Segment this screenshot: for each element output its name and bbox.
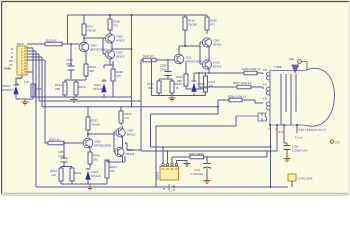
svg-text:BF423: BF423 <box>126 152 135 156</box>
svg-text:KG: KG <box>263 83 267 87</box>
svg-text:BF63DC5500: BF63DC5500 <box>94 144 112 148</box>
resistor R237 load <box>82 15 96 42</box>
tube electrode g1 <box>280 74 282 125</box>
transistor V302 <box>105 34 124 43</box>
wire base rail V309/V310 <box>200 42 203 64</box>
node V306 collector <box>87 133 89 135</box>
wire zener-R251 bottom link <box>16 98 33 100</box>
wire top supply bus <box>68 14 208 16</box>
diode D305 <box>192 73 210 96</box>
wire input drop (x42) <box>41 57 43 107</box>
wire emitter network rail <box>65 80 86 82</box>
resistor R257 <box>189 152 204 159</box>
wire bottom bus <box>36 186 288 188</box>
wire stage2 input riser (x141) <box>140 60 142 151</box>
svg-text:TUBE: TUBE <box>274 65 282 69</box>
svg-text:10K: 10K <box>24 80 29 84</box>
wire heater line y147 <box>151 146 271 148</box>
wire input drop to bottom bus (x36) <box>35 51 37 187</box>
wire V309-V310 column <box>208 38 210 73</box>
svg-text:XS301: XS301 <box>156 171 160 180</box>
resistor R253 <box>50 168 63 184</box>
node tube focus pin <box>296 124 298 126</box>
connector CON2 <box>288 174 313 187</box>
transistor V310 <box>202 60 221 69</box>
ground under C320 <box>284 156 291 162</box>
svg-text:CON2 5256: CON2 5256 <box>298 177 313 181</box>
resistor R266 <box>239 67 263 75</box>
svg-text:R268 1/2W 1K: R268 1/2W 1K <box>228 95 247 99</box>
wire stage2 ground rail <box>152 60 206 96</box>
capacitor C306 input <box>66 44 75 79</box>
svg-text:75C: 75C <box>335 141 340 145</box>
node heater pin at y147 <box>270 146 272 148</box>
transistor V308 <box>115 147 135 156</box>
svg-text:390: 390 <box>93 158 98 162</box>
cathode coil red <box>266 72 270 80</box>
wire pin4 to gnd <box>177 161 188 164</box>
svg-text:Focus: Focus <box>295 136 303 140</box>
wire V304 collector to base rail <box>84 38 103 42</box>
svg-text:470: 470 <box>210 23 215 27</box>
resistor R252 <box>70 168 82 184</box>
node stage2 input divider tap <box>151 59 153 61</box>
svg-text:BF422: BF422 <box>116 39 125 43</box>
svg-text:470: 470 <box>125 116 130 120</box>
node XS301 pin1 tap <box>162 146 164 148</box>
transistor V303 <box>105 50 124 59</box>
resistor R249 emitter <box>88 148 100 168</box>
node heater pin at bottom bus <box>270 186 272 188</box>
transistor V307 <box>116 128 136 137</box>
node tube pin heater A <box>269 124 271 126</box>
svg-text:470: 470 <box>110 169 115 173</box>
wire pin3 to R257 line <box>172 151 267 163</box>
connector XS301 <box>156 163 179 180</box>
svg-text:7W10K: 7W10K <box>91 123 100 127</box>
node bus junction 1 <box>109 14 111 16</box>
ground stage2 <box>169 96 176 102</box>
svg-text:Gnd: Gnd <box>278 130 284 134</box>
diode D306 <box>86 168 101 184</box>
svg-text:KB: KB <box>263 97 267 101</box>
transistor V311 driver <box>174 54 202 64</box>
wire stage1 output to riser <box>112 48 132 50</box>
svg-text:4.7uF/250: 4.7uF/250 <box>190 172 203 176</box>
resistor R334 <box>147 81 161 96</box>
svg-text:R266 1/2W 1K: R266 1/2W 1K <box>242 67 261 71</box>
svg-text:15614K: 15614K <box>91 174 101 178</box>
resistor R341 <box>204 73 216 96</box>
svg-text:270p: 270p <box>160 68 167 72</box>
ground input area <box>22 99 29 105</box>
svg-text:R237 47: R237 47 <box>143 54 154 58</box>
svg-text:R239 47: R239 47 <box>46 39 57 43</box>
wire input drop B (x33) <box>32 48 34 97</box>
wire stage3 ground rail <box>61 183 107 185</box>
connector XS20 <box>15 42 27 81</box>
wire stage3 out link y150 <box>125 143 141 150</box>
transistor V309 <box>202 38 221 47</box>
wire bus drop to stage3 riser <box>131 15 133 107</box>
svg-text:BF423: BF423 <box>213 65 222 69</box>
node stage1 output tap <box>131 48 133 50</box>
resistor R267 <box>199 81 263 89</box>
wire V303 emitter to clamp rail <box>104 61 113 69</box>
capacitor C307 input <box>58 143 68 167</box>
resistor R233 load <box>86 107 100 137</box>
svg-text:R267 1/2W 1K: R267 1/2W 1K <box>233 81 252 85</box>
svg-text:BZX9C5.1: BZX9C5.1 <box>1 88 15 92</box>
capacitor C311 <box>190 157 211 178</box>
svg-text:390: 390 <box>89 69 94 73</box>
node V304 collector <box>83 37 85 39</box>
svg-text:R257 1R50: R257 1R50 <box>189 152 204 156</box>
svg-text:10E: 10E <box>289 57 294 61</box>
wire cathode staircase S1 (y113) <box>151 100 219 147</box>
resistor R235 cascode bias <box>119 107 132 126</box>
resistor R240 emitter <box>84 52 96 80</box>
svg-text:BF422: BF422 <box>127 133 136 137</box>
svg-text:BF423: BF423 <box>116 55 125 59</box>
svg-text:GND: GND <box>4 67 12 71</box>
ground stage3 <box>87 184 94 190</box>
wire emitter network rail 3 <box>61 167 72 169</box>
svg-text:7W10K: 7W10K <box>188 23 197 27</box>
ground near XS301 <box>184 162 191 167</box>
flag 75C <box>330 140 340 145</box>
node bus junction 2 <box>131 14 133 16</box>
node R267 feed tap <box>198 72 200 74</box>
wire heater pin drop 2 <box>276 125 278 151</box>
svg-text:R272: R272 <box>79 85 86 89</box>
wire S1 route to R267 <box>198 73 200 87</box>
svg-text:1000pF/2KV: 1000pF/2KV <box>292 149 308 153</box>
resistor R272 <box>74 82 86 97</box>
transistor V306 driver <box>83 138 111 148</box>
node C306 tap on input <box>70 43 72 45</box>
wire pin stub rises <box>27 48 45 60</box>
svg-text:BF63DC5500: BF63DC5500 <box>185 60 203 64</box>
svg-text:R337 47: R337 47 <box>49 138 60 142</box>
wire heater feed y151 <box>141 150 277 152</box>
tube electrode g4 <box>295 74 297 125</box>
spark gap <box>289 57 307 73</box>
wire heater pin drop 1 <box>270 125 272 187</box>
svg-text:39R: 39R <box>148 86 153 90</box>
resistor R251 <box>24 72 43 99</box>
zener ZD303 <box>1 75 22 99</box>
svg-text:150: 150 <box>116 74 121 78</box>
svg-text:R252: R252 <box>75 171 82 175</box>
svg-text:XS20: XS20 <box>17 42 24 46</box>
node tube pin G1 <box>283 124 285 126</box>
resistor R237b input <box>141 54 174 62</box>
wire S2 route y73 <box>206 72 240 74</box>
wire input line y101 <box>39 100 141 102</box>
wire V302-V303 column <box>110 34 112 61</box>
wire V306 collector rail <box>88 134 114 137</box>
resistor R330 <box>170 81 182 96</box>
svg-text:270p: 270p <box>58 154 65 158</box>
svg-text:54SX53W22-DCH: 54SX53W22-DCH <box>299 128 327 132</box>
node input3 <box>63 142 65 144</box>
capacitor C308 input <box>160 60 172 79</box>
capacitor C320 <box>284 145 308 157</box>
svg-text:BF63DC5500: BF63DC5500 <box>90 48 108 52</box>
svg-text:H: H <box>162 188 166 190</box>
resistor R332 emitter <box>176 63 204 89</box>
svg-text:270p: 270p <box>66 62 73 66</box>
svg-text:+100V: +100V <box>167 184 171 192</box>
svg-text:39R: 39R <box>55 87 60 91</box>
wire pin1 to heater line <box>162 147 164 163</box>
wire bus left drop <box>67 15 69 44</box>
resistor R234 <box>55 82 67 97</box>
wire focus pin stub <box>296 125 298 133</box>
node V311 collector <box>184 45 186 47</box>
svg-text:KR: KR <box>263 68 267 72</box>
heater coil <box>236 113 267 121</box>
transistor V304 driver <box>79 42 107 52</box>
ground stage1 <box>71 97 78 103</box>
node riser meets stage3 bus <box>131 106 133 108</box>
svg-text:BF422: BF422 <box>213 43 222 47</box>
resistor R268 <box>218 95 263 104</box>
resistor R238 <box>111 61 123 97</box>
svg-text:10K: 10K <box>51 173 56 177</box>
wire stage1 ground rail (input line y97) <box>33 96 131 98</box>
svg-text:15614K: 15614K <box>93 87 103 91</box>
resistor R254 <box>105 156 125 184</box>
node R257 output / C311 tap <box>206 156 208 158</box>
wire base rail V302/V303 <box>103 38 106 54</box>
wire input drop blue channel (x45) <box>44 60 46 143</box>
svg-text:470: 470 <box>113 24 118 28</box>
resistor R236 cascode bias <box>108 15 120 34</box>
wire V311 collector rail <box>179 46 200 54</box>
node stage2 out <box>208 72 210 74</box>
wire emitter network rail 2 <box>159 76 172 82</box>
tube electrode g3 <box>290 74 292 125</box>
svg-text:R251: R251 <box>36 87 43 91</box>
wire pin R to R239 <box>26 43 28 45</box>
tube electrode g2 <box>285 74 287 112</box>
wire heater staircase (x156/y126) <box>156 116 236 187</box>
node tube pin heater B <box>276 124 278 126</box>
node riser x218 on stage3 bus <box>217 106 219 108</box>
wire V307-V308 column <box>122 126 124 162</box>
svg-text:7W10K: 7W10K <box>87 29 96 33</box>
resistor R246 cascode bias <box>205 15 217 34</box>
wire base rail V307/V308 <box>114 132 116 152</box>
node XS301 pin2 tap <box>167 150 169 152</box>
wire stage3 supply bus <box>42 106 218 108</box>
resistor R337 input <box>45 138 83 145</box>
svg-text:15: 15 <box>176 86 180 90</box>
ground under C311 <box>204 178 211 184</box>
cathode coil green <box>266 87 270 95</box>
tube outline <box>270 68 335 126</box>
cathode coil blue <box>266 102 270 110</box>
svg-text:GND: GND <box>172 185 176 191</box>
wire G1 pin drop <box>284 125 287 145</box>
wire input drop (x39) <box>38 54 40 101</box>
resistor R216 load <box>183 15 197 46</box>
node C308 tap on input <box>167 59 169 61</box>
resistor R239 input <box>27 39 79 46</box>
wire pin2 to y151 <box>167 151 169 163</box>
diode D304 <box>93 66 107 97</box>
